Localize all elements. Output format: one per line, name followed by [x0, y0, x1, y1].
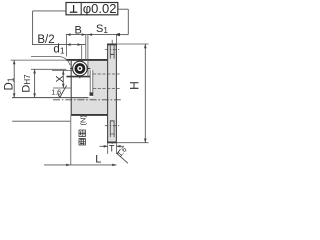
svg-text:1.6: 1.6 [51, 87, 61, 96]
svg-text:H: H [128, 81, 142, 90]
svg-text:B/2: B/2 [37, 34, 54, 46]
svg-text:d1: d1 [53, 44, 64, 56]
svg-text:D1: D1 [4, 77, 16, 90]
svg-text:L: L [95, 154, 101, 166]
svg-text:S1: S1 [96, 23, 108, 35]
svg-text:B: B [75, 24, 82, 36]
svg-text:X: X [54, 75, 66, 82]
svg-text:φ0.02: φ0.02 [83, 1, 117, 16]
svg-text:(N): (N) [79, 115, 88, 126]
svg-text:DH7: DH7 [21, 74, 33, 93]
svg-text:T: T [109, 144, 115, 154]
